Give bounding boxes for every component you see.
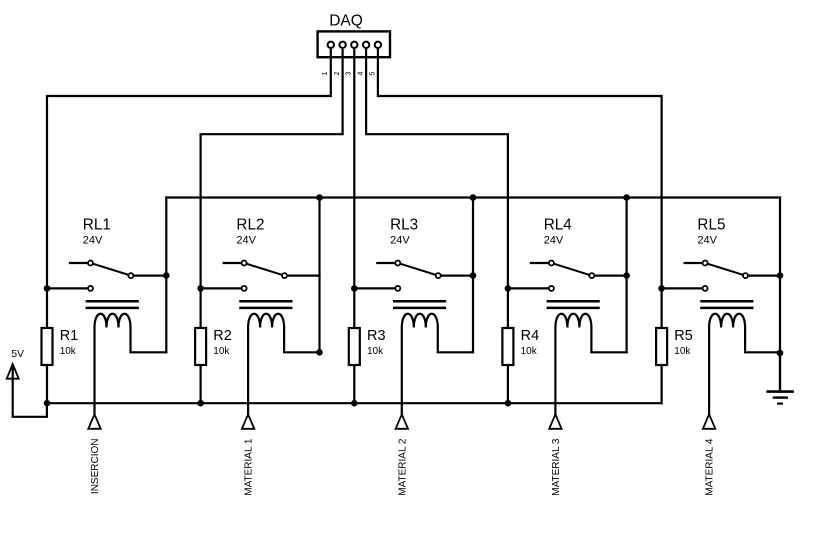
terminal INSERCION <box>88 414 101 494</box>
wire top bus (relay commons) <box>166 196 780 198</box>
terminal MATERIAL 4 <box>703 414 716 495</box>
wire bottom bus <box>47 402 662 404</box>
svg-text:24V: 24V <box>544 235 564 247</box>
svg-text:R4: R4 <box>521 328 540 344</box>
node: ground junction RL5 <box>777 350 784 357</box>
wire right rail of RL1 <box>165 198 167 353</box>
relay RL2 coil and wire to terminal <box>248 314 319 415</box>
svg-text:5: 5 <box>369 71 376 75</box>
pin 2 <box>339 42 345 48</box>
pin 4 <box>363 42 369 48</box>
relay RL1 coil core <box>87 301 138 308</box>
relay RL2 coil core <box>241 301 292 308</box>
pin 1 <box>328 42 334 48</box>
terminal MATERIAL 2 <box>396 414 409 495</box>
resistor R2 <box>195 328 206 365</box>
node: switch output junctions <box>163 272 783 279</box>
wire DAQ pin 4 to RL4 rail <box>366 48 508 403</box>
svg-text:R2: R2 <box>213 328 232 344</box>
relay RL4 coil and wire to terminal <box>555 314 626 415</box>
svg-text:DAQ: DAQ <box>329 13 363 30</box>
svg-text:4: 4 <box>358 71 365 75</box>
svg-text:MATERIAL 4: MATERIAL 4 <box>705 438 716 496</box>
node: coil corner junction RL2 <box>316 349 323 356</box>
resistor R4 <box>502 328 513 365</box>
svg-text:24V: 24V <box>236 235 256 247</box>
resistor R5 <box>656 328 667 365</box>
relay RL5 coil and wire to terminal <box>709 314 780 415</box>
wire DAQ pin 1 to RL1 rail <box>47 48 331 403</box>
svg-text:MATERIAL 3: MATERIAL 3 <box>551 438 562 496</box>
terminal MATERIAL 1 <box>242 414 255 495</box>
power 5V arrow <box>7 364 47 417</box>
svg-text:3: 3 <box>346 71 353 75</box>
svg-text:24V: 24V <box>390 235 410 247</box>
relay RL4 switch <box>508 261 627 291</box>
svg-text:2: 2 <box>334 71 341 75</box>
node: tap junctions on left rails <box>44 285 665 292</box>
svg-text:5V: 5V <box>11 348 24 360</box>
svg-text:10k: 10k <box>674 346 691 357</box>
node: bottom bus junctions <box>44 400 512 407</box>
ground <box>768 353 793 404</box>
svg-text:MATERIAL 2: MATERIAL 2 <box>397 438 408 496</box>
wire DAQ pin 2 to RL2 rail <box>201 48 343 403</box>
relay RL5 coil core <box>702 301 753 308</box>
svg-text:RL2: RL2 <box>236 217 264 234</box>
node: top bus junctions <box>316 194 630 201</box>
terminal MATERIAL 3 <box>549 414 562 495</box>
wire right rail of RL3 <box>472 198 474 353</box>
svg-text:10k: 10k <box>367 346 384 357</box>
svg-text:24V: 24V <box>83 235 103 247</box>
wire right rail of RL5 <box>779 198 781 392</box>
pin 5 <box>375 42 381 48</box>
wire DAQ pin 5 to RL5 rail <box>378 48 662 403</box>
relay RL5 switch <box>662 261 780 291</box>
svg-text:RL3: RL3 <box>390 217 418 234</box>
relay RL2 switch <box>201 261 320 291</box>
svg-text:INSERCION: INSERCION <box>90 439 101 495</box>
relay RL3 switch <box>354 261 473 291</box>
relay RL3 coil and wire to terminal <box>402 314 473 415</box>
svg-text:R5: R5 <box>674 328 693 344</box>
svg-text:1: 1 <box>322 71 329 75</box>
svg-text:RL1: RL1 <box>83 217 111 234</box>
wire right rail of RL2 <box>318 198 320 353</box>
svg-text:MATERIAL 1: MATERIAL 1 <box>244 438 255 496</box>
pin 3 <box>351 42 357 48</box>
connector U1 DAQ body <box>318 31 390 57</box>
relay RL4 coil core <box>548 301 599 308</box>
svg-text:10k: 10k <box>213 346 230 357</box>
svg-text:R1: R1 <box>60 328 79 344</box>
svg-text:RL4: RL4 <box>544 217 573 234</box>
svg-text:10k: 10k <box>60 346 77 357</box>
relay RL3 coil core <box>394 301 445 308</box>
svg-text:RL5: RL5 <box>697 217 725 234</box>
svg-text:10k: 10k <box>521 346 538 357</box>
relay RL1 switch <box>47 261 166 291</box>
resistor R3 <box>349 328 360 365</box>
svg-text:24V: 24V <box>697 235 717 247</box>
wire DAQ pin 3 to RL3 rail <box>353 48 355 403</box>
resistor R1 <box>42 328 53 365</box>
relay RL1 coil and wire to terminal <box>95 314 167 415</box>
wire right rail of RL4 <box>625 198 627 353</box>
svg-text:R3: R3 <box>367 328 386 344</box>
